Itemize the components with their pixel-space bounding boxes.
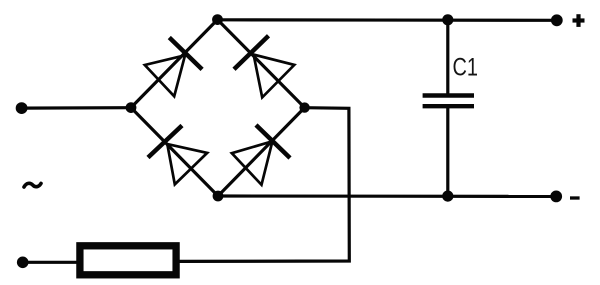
wire bottom rail (- bus from bottom node to - terminal) — [218, 194, 556, 198]
terminal AC input top — [16, 102, 28, 114]
wire bridge NE diagonal (top node to right node) — [218, 20, 305, 108]
node top bridge junction — [212, 14, 223, 25]
svg-text:C1: C1 — [453, 54, 479, 82]
node left bridge junction — [126, 102, 137, 113]
diode D2 (bridge top-right, anode right node, cathode top node) — [234, 36, 294, 98]
node capacitor bottom junction — [442, 191, 453, 202]
wire AC input bottom to resistor left — [23, 261, 79, 264]
resistor R1 (rectangle body) — [80, 246, 176, 275]
terminal - output — [550, 191, 562, 203]
wire bridge SE diagonal (bottom node to right node) — [218, 108, 305, 196]
terminal + output — [551, 14, 563, 26]
diode D3 (bridge bottom-left, anode bottom node, cathode left node) — [148, 126, 207, 185]
terminal AC input bottom — [17, 257, 29, 269]
node right bridge junction — [299, 102, 309, 112]
wire capacitor bottom lead — [446, 106, 449, 196]
label - (negative terminal) — [570, 196, 580, 199]
diode D4 (bridge bottom-right, anode bottom node, cathode right node) — [232, 125, 290, 185]
label + (positive terminal) — [573, 14, 585, 27]
wire bridge NW diagonal (left node to top node) — [131, 20, 218, 108]
wire AC input left to bridge left node — [22, 106, 131, 110]
wire bridge SW diagonal (left node to bottom node) — [131, 108, 218, 196]
node bottom bridge junction — [213, 191, 224, 202]
capacitor C1 plates — [423, 96, 474, 107]
diode D1 (bridge top-left, anode left node, cathode top node) — [145, 38, 202, 97]
label ~ (AC symbol) — [24, 183, 41, 187]
wire top rail (+ bus from top node to + terminal) — [218, 18, 557, 22]
wire capacitor top lead — [446, 20, 449, 96]
wire right node down and left to resistor — [180, 108, 350, 262]
node capacitor top junction — [442, 14, 453, 25]
